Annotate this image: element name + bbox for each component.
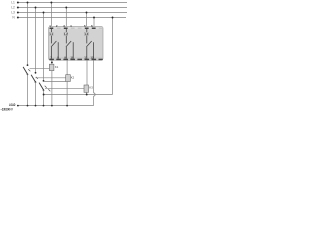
svg-text:L2: L2 [11,6,15,10]
svg-text:K3: K3 [89,86,93,90]
svg-text:L2: L2 [64,32,68,36]
svg-text:K1: K1 [55,65,59,69]
svg-text:L1: L1 [11,1,15,5]
svg-text:L1: L1 [50,32,54,36]
svg-text:N: N [12,16,15,20]
svg-text:L3: L3 [11,11,15,15]
svg-text:L3: L3 [85,32,89,36]
svg-text:~230/240 V: ~230/240 V [1,107,14,111]
svg-text:K2: K2 [71,75,75,79]
svg-text:11: 11 [84,55,87,59]
